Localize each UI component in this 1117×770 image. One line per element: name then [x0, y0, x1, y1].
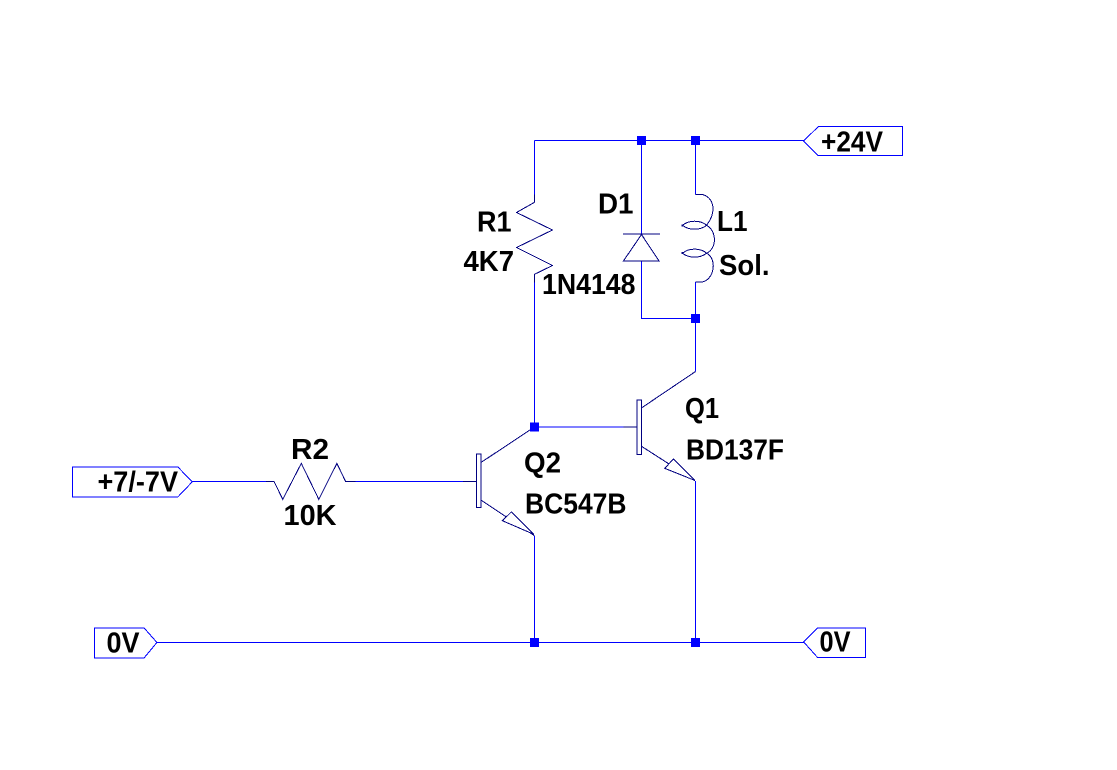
svg-text:1N4148: 1N4148	[542, 269, 636, 301]
junction rail/L1 top	[691, 136, 700, 145]
diode D1 triangle	[623, 235, 659, 262]
transistor Q1 base lead	[624, 426, 638, 428]
wire L1 top to rail	[695, 141, 697, 195]
power flag +24V	[803, 127, 902, 156]
wire D1 cathode to rail	[641, 141, 643, 234]
svg-text:Q2: Q2	[524, 447, 561, 479]
wire R2 to Q2 base	[355, 481, 463, 483]
transistor Q2 emitter arrow	[502, 512, 534, 534]
transistor Q2 emitter lead	[481, 500, 535, 536]
resistor R2	[266, 463, 356, 499]
wire Q2 emitter to 0V rail	[534, 536, 536, 643]
wire Q1 emitter to 0V rail	[695, 481, 697, 643]
svg-text:L1: L1	[717, 206, 748, 238]
wire L1 bottom to node B	[695, 282, 697, 319]
svg-text:Q1: Q1	[685, 393, 719, 425]
svg-text:R2: R2	[291, 434, 329, 466]
inductor L1 coil	[683, 194, 715, 282]
svg-text:4K7: 4K7	[464, 246, 515, 278]
junction node A R1/Q2 collector/Q1 base	[530, 423, 539, 432]
svg-text:+24V: +24V	[821, 127, 884, 159]
transistor Q1 emitter lead	[642, 446, 695, 480]
transistor Q1 collector lead	[642, 372, 696, 408]
svg-text:BD137F: BD137F	[686, 435, 784, 467]
svg-text:Sol.: Sol.	[719, 250, 770, 282]
junction Q2 emitter on 0V rail	[530, 638, 539, 647]
svg-text:10K: 10K	[284, 500, 337, 532]
wire node A to Q1 base	[535, 426, 624, 428]
ground flag 0V left	[95, 628, 157, 658]
junction node B D1/L1/Q1 collector	[691, 314, 700, 323]
transistor Q1 emitter arrow	[665, 459, 695, 481]
junction rail/D1 cathode	[637, 136, 646, 145]
wire D1 anode to node B	[642, 261, 696, 319]
ground flag 0V right	[804, 628, 866, 658]
svg-text:0V: 0V	[107, 628, 141, 660]
inductor L1 loop tip dot lower	[682, 252, 684, 254]
svg-text:D1: D1	[598, 189, 634, 221]
transistor Q2 base bar	[477, 454, 481, 508]
input flag +7/-7V	[72, 467, 192, 497]
junction Q1 emitter on 0V rail	[691, 638, 700, 647]
svg-text:+7/-7V: +7/-7V	[98, 467, 179, 499]
transistor Q2 collector lead	[481, 427, 535, 463]
wire node B to Q1 collector	[695, 319, 697, 372]
wire R1 bottom to node A	[534, 282, 536, 427]
transistor Q2 base lead	[463, 481, 477, 483]
wire 0V bottom rail	[157, 642, 804, 644]
wire +24V top rail	[535, 140, 804, 142]
svg-text:R1: R1	[477, 207, 512, 239]
diode D1 cathode bar	[623, 233, 660, 235]
wire input to R2	[192, 481, 266, 483]
transistor Q1 base bar	[637, 400, 642, 454]
resistor R1	[517, 194, 553, 282]
wire R1 top lead to rail	[534, 141, 536, 195]
inductor L1 loop tip dot upper	[682, 224, 684, 226]
svg-text:BC547B: BC547B	[525, 489, 627, 521]
svg-text:0V: 0V	[820, 627, 852, 659]
